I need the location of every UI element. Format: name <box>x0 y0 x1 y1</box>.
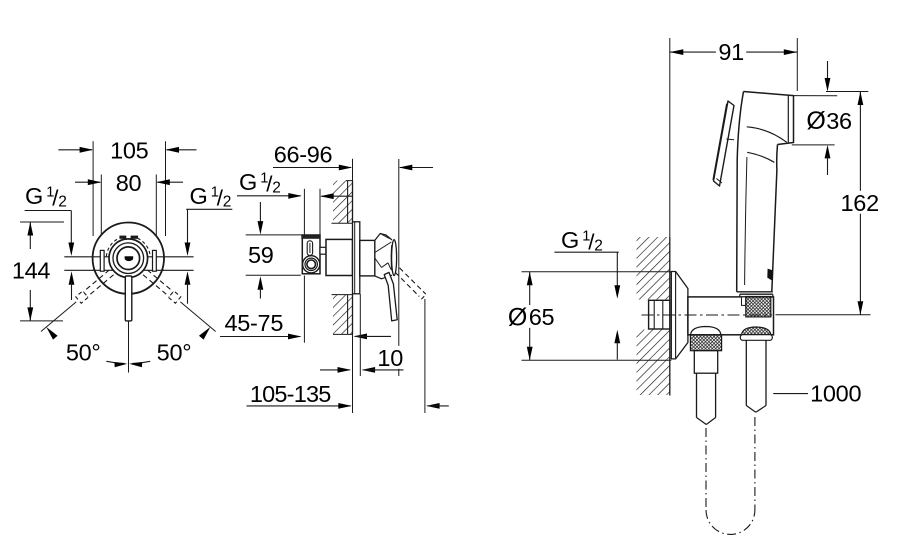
valve hose solid part <box>697 373 716 424</box>
angle extension lines 50 deg <box>41 302 216 340</box>
label G 1/2 left supply <box>25 183 75 256</box>
dimension 45-75 <box>220 276 391 343</box>
lever tip extension line <box>398 159 400 376</box>
connection nipple <box>320 247 326 254</box>
lever mouth mark <box>125 256 134 261</box>
cartridge top tabs <box>119 236 138 239</box>
supply pipe lines across <box>64 256 193 258</box>
svg-text:45-75: 45-75 <box>224 310 283 336</box>
spray lever blade <box>713 101 734 186</box>
angle dimension arcs at bottom centreline <box>106 361 150 367</box>
dimension 144 (escutcheon top to lever tip) <box>9 222 64 321</box>
svg-text:36: 36 <box>826 108 852 134</box>
centreline through valve <box>642 314 773 316</box>
extension lines to body top <box>303 189 305 235</box>
dimension 162 <box>776 92 882 315</box>
svg-text:50°: 50° <box>66 340 101 366</box>
left figure: front view of concealed mixer <box>9 138 232 373</box>
escutcheon face extension <box>359 294 361 376</box>
dimension 66-96 <box>273 142 433 171</box>
hex nipple through wall <box>649 300 670 329</box>
svg-text:2: 2 <box>223 194 232 211</box>
escutcheon side view <box>353 222 360 294</box>
svg-text:Ø: Ø <box>806 107 825 135</box>
lever handle (down position) <box>125 276 132 321</box>
svg-text:Ø: Ø <box>508 303 527 331</box>
dashed lever at +50 deg <box>143 270 181 303</box>
up arrows to lower port line <box>69 271 191 303</box>
mixer body through wall <box>326 239 353 275</box>
svg-text:105-135: 105-135 <box>250 381 331 407</box>
svg-text:10: 10 <box>377 345 403 371</box>
spray cone dome above collar <box>740 327 772 340</box>
dashed rotated-lever arcs near cartridge <box>106 238 150 256</box>
svg-text:59: 59 <box>248 242 274 268</box>
wall face extension to 105-135 <box>352 334 354 413</box>
lower wall hatched <box>332 294 353 334</box>
valve / holder body <box>688 294 774 335</box>
handle side view <box>360 234 397 279</box>
svg-text:105: 105 <box>110 138 149 164</box>
middle figure: side view of concealed mixer in wall <box>220 142 449 413</box>
dashed pulled-out lever <box>395 268 426 299</box>
dimension Ø65 <box>508 272 671 361</box>
label G 1/2 right supply <box>185 183 233 256</box>
svg-text:1000: 1000 <box>810 380 861 406</box>
spray hose solid part <box>746 340 766 412</box>
label G 1/2 right figure <box>554 227 620 360</box>
svg-text:G: G <box>239 169 257 195</box>
svg-text:91: 91 <box>718 39 744 65</box>
escutcheon circle <box>93 223 164 294</box>
svg-text:144: 144 <box>12 257 51 283</box>
right figure: hand spray on wall holder <box>508 38 882 534</box>
svg-text:65: 65 <box>529 304 555 330</box>
cartridge outer ring <box>109 239 148 278</box>
wall escutcheon cone <box>671 272 688 359</box>
dimension 105-135 <box>247 381 449 409</box>
svg-text:2: 2 <box>272 180 281 197</box>
port lines inside circle <box>93 256 164 258</box>
left port flange <box>100 250 104 271</box>
svg-text:G: G <box>190 183 208 209</box>
svg-text:50°: 50° <box>157 340 192 366</box>
svg-text:G: G <box>25 183 43 209</box>
dimension 91 <box>670 38 798 237</box>
svg-text:162: 162 <box>841 190 879 216</box>
label 1000 hose length <box>773 380 861 406</box>
upper wall hatched <box>332 181 353 224</box>
cartridge inner ring <box>113 243 144 274</box>
centreline below lever <box>128 322 130 373</box>
dimension Ø36 <box>792 61 869 175</box>
box port <box>303 256 320 273</box>
dimension 105 (escutcheon diameter) <box>58 138 196 237</box>
svg-text:66-96: 66-96 <box>274 142 333 168</box>
dimension 10 <box>320 345 405 373</box>
wall hatching right figure <box>637 237 670 396</box>
lever side view <box>384 272 397 321</box>
label G 1/2 middle <box>237 169 352 199</box>
hose nut under valve <box>690 327 721 374</box>
svg-text:2: 2 <box>58 194 67 211</box>
dashed lever at -50 deg <box>76 270 114 303</box>
hose loop dash-dot <box>706 417 755 534</box>
right port flange <box>153 250 157 271</box>
knurled cone nut of spray <box>737 292 773 317</box>
pulled lever extension <box>424 299 426 413</box>
svg-text:80: 80 <box>116 170 142 196</box>
rough-in box <box>301 235 320 274</box>
dimension 80 (supply ports spacing) <box>75 170 183 250</box>
cartridge core <box>117 247 140 270</box>
wall face extension line upper <box>352 159 354 181</box>
holder hook mark <box>767 269 772 281</box>
svg-text:G: G <box>561 227 579 253</box>
spray head cap <box>737 92 838 292</box>
dimension 59 <box>246 202 303 299</box>
